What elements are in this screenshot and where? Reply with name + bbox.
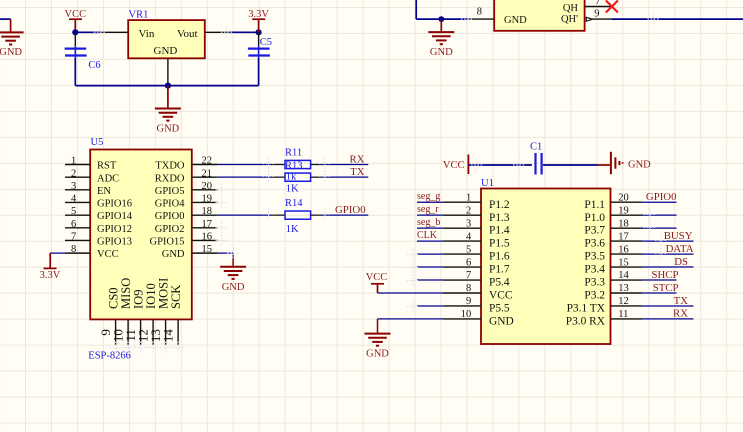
svg-text:RXDO: RXDO [155,173,185,184]
svg-text:13: 13 [618,283,629,294]
svg-text:14: 14 [161,329,176,343]
svg-text:GPIO5: GPIO5 [155,186,185,197]
svg-text:4: 4 [71,194,77,205]
svg-text:5: 5 [466,244,471,255]
svg-text:R13: R13 [285,161,303,172]
svg-text:14: 14 [618,270,629,281]
svg-text:GND: GND [222,282,245,293]
svg-text:STCP: STCP [653,282,679,294]
svg-text:C5: C5 [260,37,272,48]
svg-text:GPIO0: GPIO0 [335,204,366,216]
svg-text:6: 6 [71,219,76,230]
svg-text:seg_b: seg_b [417,217,440,228]
svg-text:QH': QH' [561,14,578,25]
svg-text:8: 8 [466,283,471,294]
svg-text:12: 12 [618,296,629,307]
svg-text:P1.1: P1.1 [584,199,605,211]
svg-text:P5.4: P5.4 [489,277,510,289]
svg-text:20: 20 [618,192,629,203]
svg-text:1k: 1k [286,172,297,183]
svg-text:P1.3: P1.3 [489,212,510,224]
svg-text:U1: U1 [481,178,494,189]
svg-text:7: 7 [466,270,471,281]
svg-text:seg_g: seg_g [417,191,440,202]
svg-text:GND: GND [157,124,180,135]
svg-text:10: 10 [461,309,472,320]
svg-text:GPIO4: GPIO4 [155,199,186,210]
svg-text:U5: U5 [91,137,104,148]
svg-text:19: 19 [202,194,213,205]
svg-text:GPIO2: GPIO2 [155,224,185,235]
svg-text:3.3V: 3.3V [40,270,61,281]
svg-text:P1.6: P1.6 [489,251,510,263]
svg-text:Vout: Vout [177,28,198,40]
svg-text:8: 8 [477,7,482,18]
svg-text:ESP-8266: ESP-8266 [88,351,131,362]
svg-text:19: 19 [618,205,629,216]
svg-text:15: 15 [618,257,629,268]
svg-text:GND: GND [366,349,389,360]
svg-text:16: 16 [202,232,213,243]
svg-text:P3.5: P3.5 [584,251,605,263]
svg-text:1: 1 [71,156,76,167]
svg-text:GPIO13: GPIO13 [97,237,132,248]
svg-text:16: 16 [618,244,629,255]
svg-text:GND: GND [430,47,453,58]
svg-text:5: 5 [71,206,76,217]
svg-text:6: 6 [466,257,471,268]
svg-text:P3.4: P3.4 [584,264,605,276]
svg-text:GPIO0: GPIO0 [646,191,677,203]
svg-text:20: 20 [202,181,213,192]
svg-text:P1.7: P1.7 [489,264,510,276]
svg-text:P3.2: P3.2 [584,290,605,302]
svg-text:EN: EN [97,186,111,197]
svg-text:GND: GND [0,47,22,58]
svg-text:VR1: VR1 [129,10,149,21]
svg-text:9: 9 [466,296,471,307]
svg-text:R14: R14 [285,198,303,209]
svg-text:SHCP: SHCP [651,269,678,281]
svg-text:QH: QH [563,3,579,14]
svg-text:15: 15 [202,244,213,255]
svg-text:4: 4 [466,231,472,242]
svg-text:BUSY: BUSY [664,230,693,242]
svg-text:TXDO: TXDO [155,161,185,172]
svg-text:3: 3 [71,181,76,192]
svg-text:P1.2: P1.2 [489,199,510,211]
svg-text:P3.1 TX: P3.1 TX [567,303,606,315]
svg-text:P3.6: P3.6 [584,238,605,250]
svg-text:R11: R11 [285,147,302,158]
svg-text:8: 8 [71,244,76,255]
svg-text:SCK: SCK [169,285,183,309]
svg-text:7: 7 [595,0,600,7]
svg-text:seg_r: seg_r [417,204,439,215]
svg-text:11: 11 [618,309,628,320]
svg-text:22: 22 [202,156,213,167]
svg-text:CLK: CLK [417,230,438,241]
svg-text:1K: 1K [286,183,299,194]
svg-text:9: 9 [594,8,599,19]
svg-text:TX: TX [350,166,365,178]
svg-text:ADC: ADC [97,173,119,184]
svg-text:VCC: VCC [443,160,465,171]
svg-text:7: 7 [71,232,76,243]
svg-text:GPIO15: GPIO15 [149,237,184,248]
svg-text:GND: GND [154,45,178,57]
svg-text:P1.0: P1.0 [584,212,605,224]
svg-text:TX: TX [674,295,689,307]
svg-text:DS: DS [674,256,688,268]
svg-text:Vin: Vin [139,28,155,40]
svg-text:GND: GND [628,160,651,171]
svg-text:2: 2 [466,205,471,216]
svg-text:GPIO16: GPIO16 [97,199,132,210]
svg-text:RX: RX [673,308,688,320]
svg-text:VCC: VCC [97,249,119,260]
svg-text:C6: C6 [88,60,100,71]
svg-text:GPIO0: GPIO0 [155,211,185,222]
svg-text:VCC: VCC [489,290,512,302]
svg-text:17: 17 [618,231,629,242]
svg-text:21: 21 [202,168,213,179]
svg-text:GND: GND [489,316,514,328]
svg-text:P3.3: P3.3 [584,277,605,289]
svg-text:17: 17 [202,219,213,230]
svg-text:VCC: VCC [366,272,388,283]
svg-text:DATA: DATA [666,243,694,255]
svg-text:P1.5: P1.5 [489,238,510,250]
svg-text:1K: 1K [286,224,299,235]
svg-text:3: 3 [466,218,471,229]
svg-text:C1: C1 [530,142,542,153]
svg-text:GND: GND [504,15,527,26]
svg-text:GPIO14: GPIO14 [97,211,133,222]
svg-text:GND: GND [162,249,185,260]
svg-text:1: 1 [466,192,471,203]
svg-text:18: 18 [202,206,213,217]
svg-text:18: 18 [618,218,629,229]
svg-text:2: 2 [71,168,76,179]
svg-text:P3.0 RX: P3.0 RX [566,316,606,328]
svg-text:P1.4: P1.4 [489,225,510,237]
svg-text:RST: RST [97,161,117,172]
svg-text:P5.5: P5.5 [489,303,510,315]
svg-text:GPIO12: GPIO12 [97,224,132,235]
svg-text:RX: RX [350,153,365,165]
svg-text:P3.7: P3.7 [584,225,605,237]
